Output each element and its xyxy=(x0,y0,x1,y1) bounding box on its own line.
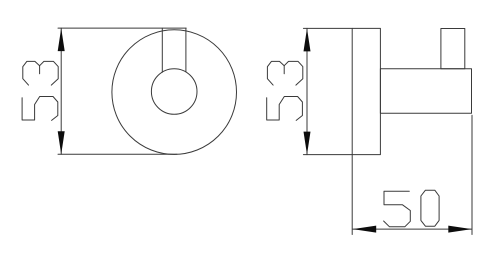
dim50 left extension line xyxy=(351,155,353,235)
dim53L bottom arrowhead xyxy=(58,131,65,154)
dim50 left arrowhead xyxy=(353,226,377,233)
dim53L dimension line xyxy=(60,28,62,154)
glyph 5 xyxy=(384,191,411,227)
glyph 3 (rotated) xyxy=(23,61,58,85)
front view inner circle (hole) xyxy=(151,69,197,115)
dim53R text "53" rotated xyxy=(267,61,303,120)
slot right line xyxy=(185,28,187,72)
slot left line xyxy=(161,28,163,72)
dim53R top arrowhead xyxy=(304,28,311,51)
side view hook pin xyxy=(441,29,465,69)
dim50 dimension line xyxy=(353,228,472,230)
dim53R dimension line xyxy=(306,28,308,154)
dim53R bottom extension line xyxy=(303,154,352,156)
dim53L top extension line xyxy=(58,27,186,29)
dim50 right extension line xyxy=(471,115,473,234)
glyph 5 (rotated) xyxy=(22,97,58,121)
dim53L top arrowhead xyxy=(58,28,65,51)
glyph 3 (rotated) xyxy=(267,61,302,85)
dim53R top extension line xyxy=(303,27,352,29)
dim53L text "53" rotated xyxy=(22,61,58,120)
glyph 0 xyxy=(421,190,439,226)
side view arm xyxy=(380,69,471,114)
glyph 5 (rotated) xyxy=(267,97,303,121)
dim53R bottom arrowhead xyxy=(304,132,311,155)
dim50 right arrowhead xyxy=(448,226,472,233)
dim53L bottom extension line xyxy=(58,153,177,155)
dim50 text "50" xyxy=(384,190,440,227)
front view outer circle xyxy=(112,30,237,155)
side view wall plate xyxy=(352,28,380,154)
